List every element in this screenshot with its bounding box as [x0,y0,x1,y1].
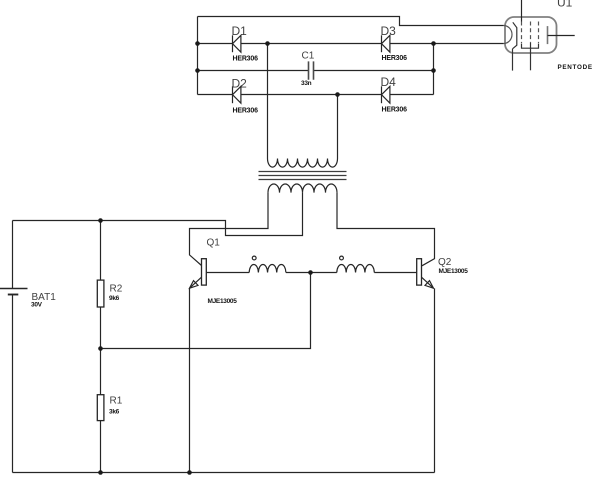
node Q1 emitter bottom [187,470,192,475]
transistor Q1 [190,238,250,473]
svg-text:Q2: Q2 [438,257,452,268]
node R1 bottom [98,470,103,475]
transformer secondary winding [268,184,337,193]
resistor R2 [97,221,122,349]
node R2 top [98,218,103,223]
svg-text:D1: D1 [232,24,248,38]
grid bottom pin [530,43,532,70]
wire D2-D4 line [198,94,434,96]
wire secondary right to Q2 collector [337,193,435,266]
wire bridge left vertical [197,17,199,95]
transformer T primary winding [268,159,338,168]
node R1/R2 junction [98,346,103,351]
tube U1 pentode [504,0,593,71]
diode D3 [381,24,408,62]
node D2/D4 primary right [335,92,340,97]
node D3 right [431,41,436,46]
plate wire [548,35,575,37]
svg-text:D4: D4 [381,75,397,89]
wire transformer primary left vertical [267,44,269,159]
wire secondary center tap to battery rail [13,193,303,236]
node C1 right [431,68,436,73]
svg-text:U1: U1 [557,0,573,10]
svg-text:HER306: HER306 [382,55,408,62]
grid dashes [522,22,539,44]
grid top pin [521,0,523,22]
svg-text:R1: R1 [110,396,123,407]
plate [547,26,549,44]
svg-text:HER306: HER306 [233,108,259,115]
transformer core [259,172,347,180]
svg-text:HER306: HER306 [382,107,408,114]
wire bridge right vertical [433,44,435,95]
capacitor C1 [301,51,315,87]
diode D2 [232,77,259,115]
wire D1-D3 line [198,43,504,45]
svg-text:R2: R2 [110,284,123,295]
diode D4 [381,75,408,114]
heater arc [504,26,512,44]
wire top rail from bridge to tube heater top [198,17,504,26]
node C1 left [195,68,200,73]
wire inductor center to R1/R2 junction [101,273,311,349]
diode D1 [232,24,259,63]
wire transformer primary right vertical [337,95,339,159]
svg-text:D3: D3 [381,24,397,38]
node inductor center [308,270,313,275]
svg-text:MJE13005: MJE13005 [208,298,238,305]
wire bottom rail [13,472,435,474]
svg-text:D2: D2 [232,77,248,91]
battery BAT1 [0,221,56,473]
svg-text:33n: 33n [301,80,312,87]
cathode pin [512,49,514,71]
wire between inductors [286,272,337,274]
svg-text:9k6: 9k6 [109,295,120,302]
svg-text:PENTODE: PENTODE [558,64,593,71]
resistor R1 [97,349,122,473]
wire secondary left to Q1 collector [190,193,269,266]
wire C1 middle line [198,70,434,72]
cathode [513,22,517,49]
envelope [505,17,557,53]
svg-text:3k6: 3k6 [109,409,120,416]
svg-text:MJE13005: MJE13005 [439,268,469,275]
grid bottom connector [522,44,539,49]
svg-text:HER306: HER306 [233,56,259,63]
inductor L2 [337,256,375,272]
inductor L1 [249,256,286,272]
node D1 right / primary [265,41,270,46]
transistor Q2 [374,257,468,473]
node D1 left [195,41,200,46]
svg-text:Q1: Q1 [207,238,221,249]
svg-text:C1: C1 [302,51,315,62]
svg-text:30V: 30V [31,302,43,309]
